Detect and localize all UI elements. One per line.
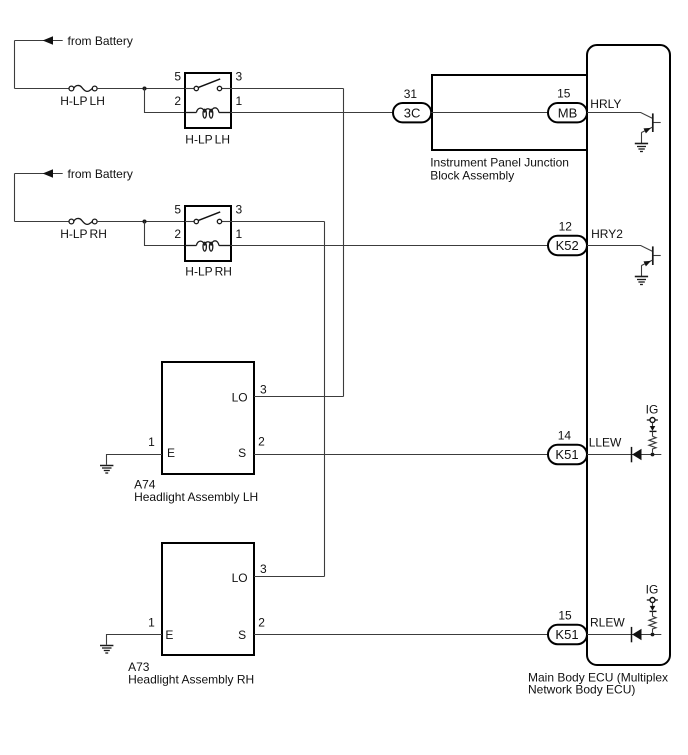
svg-text:Headlight Assembly RH: Headlight Assembly RH [128,673,254,687]
relay H-LP RH box [185,206,231,261]
svg-text:1: 1 [236,94,243,108]
svg-text:Block Assembly: Block Assembly [430,168,514,182]
wire: 3C to MB [431,112,548,114]
wire: relay RH pin3 to vertical [231,221,325,223]
wire: battery feed RH vertical [14,174,16,222]
svg-text:E: E [165,628,173,642]
svg-text:15: 15 [558,609,572,623]
svg-text:IG: IG [646,582,659,596]
svg-text:from Battery: from Battery [68,167,133,181]
wire: relay LH pin3 to vertical [231,88,344,90]
svg-text:12: 12 [559,219,573,233]
relay H-LP RH switch contacts [194,212,222,224]
LED D2 (left lamp indicator) [632,447,642,462]
wire: vertical from relay LH pin3 down to headlight LH LO [343,89,345,397]
svg-text:LLEW: LLEW [589,435,622,449]
connector MB [548,103,587,122]
fuse H-LP LH [69,85,97,91]
svg-text:2: 2 [174,94,181,108]
relay H-LP RH coil L2 [185,241,231,251]
svg-text:S: S [238,628,246,642]
arrow: from Battery LH [43,36,53,45]
LED D4 (right lamp indicator) [632,627,642,642]
wire: relay LH pin1 to connector 3C [231,112,393,114]
svg-text:H-LPRH: H-LPRH [185,265,232,279]
resistor R1 (LLEW pull-up) [649,436,656,452]
ground: Q2 emitter [635,277,648,285]
diode D3 (RLEW) [650,606,657,616]
svg-text:14: 14 [558,429,572,443]
wire: fuse to relay RH pin 5 [97,221,185,223]
IG power terminal (RLEW) [647,598,658,607]
wire: relay RH pin1 to connector K52 [231,245,548,247]
svg-text:IG: IG [646,402,659,416]
junction: LH battery node [143,87,147,91]
relay H-LP LH coil L1 [185,108,231,118]
node: RLEW resistor junction [651,633,655,637]
instrument panel junction block assembly box [432,75,587,150]
wire: node down to coil row RH [145,222,186,246]
wire: MB to transistor Q1 base [587,113,652,119]
arrow: from Battery RH [43,169,53,178]
resistor R2 (RLEW pull-up) [649,616,656,632]
svg-text:31: 31 [404,87,418,101]
svg-text:H-LPLH: H-LPLH [60,94,105,108]
svg-text:1: 1 [148,616,155,630]
wire: battery feed RH horizontal arrow line [15,173,63,175]
svg-text:E: E [167,446,175,460]
ground: headlight RH [100,646,113,654]
svg-text:LO: LO [232,391,248,405]
ground: headlight LH [100,466,113,474]
svg-text:Network Body ECU): Network Body ECU) [528,683,635,697]
wire: fuse to relay pin 5 [97,88,185,90]
wire: LLEW internal to node [587,454,661,456]
svg-text:2: 2 [258,435,265,449]
svg-text:15: 15 [557,86,571,100]
svg-text:5: 5 [174,202,181,216]
headlight assembly RH box A73 [162,543,254,655]
svg-text:5: 5 [174,69,181,83]
diode D1 (LLEW) [650,426,657,436]
relay H-LP LH switch contacts [194,79,222,91]
svg-text:3: 3 [236,202,243,216]
wire: battery to fuse H-LP RH [15,221,70,223]
wire: relay LH switch stubs [185,88,196,90]
svg-text:H-LPRH: H-LPRH [60,227,107,241]
svg-text:HRLY: HRLY [590,97,621,111]
svg-text:LO: LO [232,571,248,585]
connector K52 [548,236,587,255]
svg-text:MB: MB [558,105,578,120]
svg-text:1: 1 [148,435,155,449]
svg-text:RLEW: RLEW [590,616,625,630]
svg-text:3: 3 [236,69,243,83]
wire: RLEW internal to node [587,634,661,636]
wire: headlight LH LO to relay LH vertical [254,396,344,398]
svg-text:Headlight Assembly LH: Headlight Assembly LH [134,490,258,504]
wire: vertical from relay RH pin3 down to headlight RH LO [324,222,326,577]
connector K51 (LLEW) [548,445,587,464]
svg-text:K51: K51 [555,627,578,642]
main body ECU box [587,45,670,665]
wire: headlight RH E to ground [107,635,163,645]
svg-text:K51: K51 [555,447,578,462]
wire: battery feed LH horizontal arrow line [15,40,63,42]
svg-text:S: S [238,446,246,460]
junction: RH battery node [143,220,147,224]
svg-text:1: 1 [236,227,243,241]
svg-text:K52: K52 [556,238,579,253]
node: LLEW resistor junction [651,453,655,457]
svg-text:3C: 3C [404,105,421,120]
fuse H-LP RH [69,218,97,224]
IG power terminal (LLEW) [647,418,658,427]
wire: headlight LH E to ground [107,455,163,465]
svg-text:HRY2: HRY2 [591,227,623,241]
connector K51 (RLEW) [548,625,587,644]
headlight assembly LH box A74 [162,362,254,474]
wire: headlight RH S to connector K51 [254,634,548,636]
connector 3C [393,103,431,122]
svg-text:3: 3 [260,562,267,576]
wire: battery to fuse H-LP LH [15,88,70,90]
transistor Q1 (HRLY driver) [642,113,661,143]
svg-text:2: 2 [174,227,181,241]
wire: headlight RH LO to relay RH vertical [254,576,325,578]
svg-text:H-LPLH: H-LPLH [185,133,230,147]
wire: headlight LH S to connector K51 [254,454,548,456]
wire: node down to coil row LH [145,89,186,113]
ground: Q1 emitter [635,144,648,152]
relay H-LP LH box [185,73,231,128]
wire: relay RH switch stubs [185,221,196,223]
svg-text:3: 3 [260,382,267,396]
svg-text:from Battery: from Battery [68,34,133,48]
wire: K52 to transistor Q2 base [587,246,652,252]
wire: battery feed LH vertical [14,41,16,89]
svg-text:2: 2 [258,616,265,630]
transistor Q2 (HRY2 driver) [642,246,661,276]
